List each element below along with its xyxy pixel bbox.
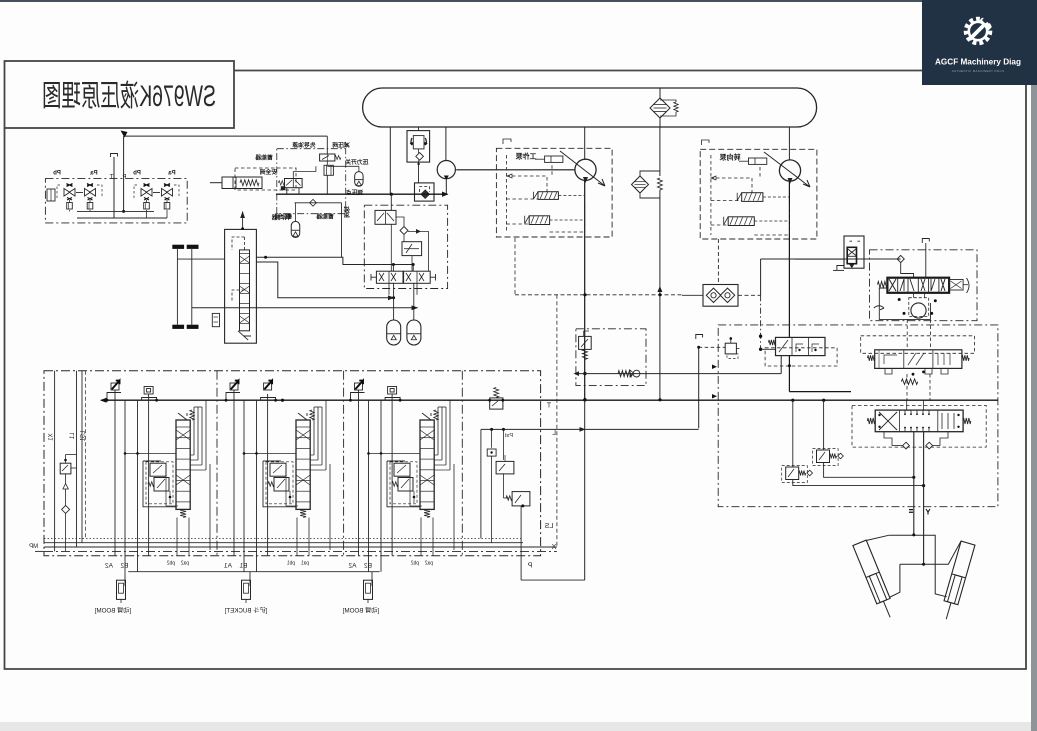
wire LS return line bbox=[481, 427, 699, 538]
section comp dashed box bbox=[146, 462, 173, 504]
wire cooler right leg bbox=[191, 249, 193, 325]
node P dot v2 bbox=[822, 399, 825, 402]
work pump servo cylinder bbox=[535, 156, 563, 162]
steering section dash-dot box bbox=[718, 325, 998, 507]
relief valve V5 bbox=[579, 331, 592, 359]
wire shuttle up dash bbox=[717, 239, 719, 285]
main control valve dash-dot box bbox=[44, 371, 541, 556]
pilot pump P3 bbox=[437, 161, 455, 195]
wire bottom ports connect bbox=[128, 572, 585, 580]
section comp solid box bbox=[263, 461, 296, 507]
pilot valve b1 bbox=[141, 184, 152, 210]
gerotor steering unit bbox=[874, 293, 937, 318]
wire L1 vertical bbox=[76, 371, 78, 547]
charge valve V23 bbox=[375, 210, 396, 224]
wire pilot bottom bus1 bbox=[70, 210, 155, 211]
wire brake box outlets bbox=[389, 283, 417, 295]
svg-text:[铲斗 BUCKET]: [铲斗 BUCKET] bbox=[224, 607, 267, 615]
steering cylinder right C2 bbox=[939, 541, 975, 621]
work pump dashed box bbox=[496, 148, 612, 237]
node P dot pump bbox=[583, 398, 586, 401]
node work P junction bbox=[583, 398, 586, 401]
test port plug 3 bbox=[364, 572, 373, 603]
work pump compensator V1 bbox=[534, 192, 585, 200]
wire section bridge bbox=[367, 400, 454, 550]
steering orbital valve U4 bbox=[887, 278, 949, 293]
node P dot s2 bbox=[281, 399, 284, 402]
wire T bracket steering bbox=[922, 239, 929, 278]
node diamond junction pilot bbox=[295, 199, 342, 221]
wire relief to cyl line2 bbox=[793, 480, 925, 488]
lever bottom bbox=[238, 331, 251, 340]
node charge arrow bbox=[416, 229, 421, 234]
section comp dashed box bbox=[390, 462, 417, 504]
wire section ports bbox=[225, 390, 277, 572]
node filter to P junction bbox=[658, 398, 661, 401]
label Y mark bbox=[926, 509, 930, 515]
svg-text:pb1: pb1 bbox=[287, 561, 296, 567]
svg-text:pa2: pa2 bbox=[425, 561, 434, 567]
svg-text:LS1: LS1 bbox=[81, 431, 87, 442]
svg-text:X: X bbox=[551, 544, 556, 551]
work pump pilot dashes bbox=[506, 155, 584, 232]
wire tank to pilot circuit bbox=[389, 127, 391, 194]
svg-text:pa2: pa2 bbox=[181, 561, 190, 567]
node box-edge arrow2 bbox=[712, 394, 717, 399]
wire X1 vertical bbox=[54, 371, 56, 552]
section pilot cap a A2 bbox=[355, 381, 364, 390]
orbital left spring bbox=[878, 282, 888, 288]
svg-text:A1: A1 bbox=[224, 563, 232, 570]
wire spool up arrow bbox=[240, 211, 245, 230]
svg-text:压力开关: 压力开关 bbox=[345, 158, 368, 166]
svg-text:B1: B1 bbox=[239, 563, 247, 570]
solenoid spring left M bbox=[769, 340, 776, 345]
svg-text:转向泵: 转向泵 bbox=[720, 153, 741, 162]
flow amplifier dash-dot box bbox=[870, 250, 978, 321]
right edge strip bbox=[1031, 0, 1037, 731]
svg-text:蓄能器: 蓄能器 bbox=[316, 212, 334, 220]
section divider 1 bbox=[216, 371, 218, 556]
solenoid small box bbox=[212, 313, 219, 326]
brake master cylinder C3 bbox=[210, 177, 262, 189]
section comp dashed box bbox=[266, 462, 293, 504]
U6 dashed box bbox=[861, 336, 975, 354]
wire pilot P riser bbox=[122, 136, 125, 213]
wire section ports bbox=[349, 390, 401, 572]
wire LS1 dashed vertical bbox=[85, 371, 87, 539]
section spool bbox=[420, 410, 438, 517]
steering pump P2 bbox=[764, 152, 810, 187]
control valve inner divider bbox=[461, 371, 463, 556]
node P dot v1 bbox=[791, 399, 794, 402]
steering compensator V3 bbox=[737, 193, 789, 202]
wire bottom bundle LS bbox=[44, 537, 523, 539]
section pilot cap b B2 bbox=[144, 387, 153, 395]
section compensator top bbox=[270, 463, 286, 476]
wire left aux down bbox=[65, 513, 67, 551]
wire priority to accumulator line1 bbox=[256, 262, 395, 300]
svg-text:T: T bbox=[109, 175, 113, 181]
U6 spring right M bbox=[962, 355, 969, 361]
wire cyl piping port1 bbox=[866, 533, 947, 596]
steering column valve U2 body bbox=[225, 229, 257, 343]
U7 bottom stubs bbox=[884, 432, 948, 449]
wire work pump delivery bbox=[584, 180, 586, 399]
label E mark bbox=[909, 509, 913, 513]
svg-text:A2: A2 bbox=[348, 563, 356, 570]
inlet relief V9 on P line bbox=[488, 388, 504, 410]
section compensator top bbox=[394, 463, 410, 476]
pressure filter F3 bbox=[415, 183, 435, 201]
svg-text:AUTHENTIC MACHINERY DOCS: AUTHENTIC MACHINERY DOCS bbox=[952, 69, 1005, 73]
section pilot cap b B2 bbox=[388, 387, 397, 395]
accumulator A1 bbox=[387, 283, 401, 345]
pressure switch V24 bbox=[402, 235, 422, 256]
cooler R1 plates bbox=[172, 245, 198, 329]
work pump P1 bbox=[560, 151, 605, 186]
wire shuttle to amplifier bbox=[738, 259, 901, 295]
svg-text:L: L bbox=[552, 430, 556, 437]
left aux diamond bbox=[62, 505, 70, 513]
pilot joystick dash-dot box bbox=[45, 179, 187, 223]
wire section pilot unders bbox=[177, 518, 189, 556]
steering pump dashed box bbox=[700, 149, 817, 239]
pressure reducing valve F4 bbox=[320, 154, 341, 161]
section pilot cap b B1 bbox=[264, 381, 273, 390]
steering main valve U7 bbox=[875, 400, 963, 432]
pilot circuit dashed box bbox=[277, 149, 346, 214]
work pump compensator V2 bbox=[525, 216, 585, 225]
wire LS1 vertical bbox=[81, 371, 83, 543]
left aux check bbox=[63, 474, 68, 505]
work pump bracket bbox=[503, 139, 511, 144]
reducing valve V8 bbox=[725, 337, 741, 358]
shuttle valve block V7 bbox=[703, 285, 738, 307]
pilot valve a1 bbox=[64, 184, 75, 210]
wire charge internals bbox=[391, 194, 404, 232]
node P line left arrow bbox=[100, 398, 107, 403]
section cap box bbox=[226, 393, 276, 401]
node relief left arrow bbox=[574, 371, 580, 376]
U6 spring left M bbox=[868, 355, 875, 361]
U7 dashed box bbox=[852, 405, 986, 447]
pilot valve b2 bbox=[162, 184, 173, 210]
hydraulic tank T bbox=[363, 88, 817, 127]
brake charge dash-dot box bbox=[364, 205, 447, 288]
check valve block V20 bbox=[407, 131, 430, 166]
wire cylinder feed right bbox=[923, 432, 925, 564]
svg-text:工作泵: 工作泵 bbox=[516, 152, 537, 161]
wire section pilot unders bbox=[297, 518, 309, 556]
wire cyl piping port2 bbox=[889, 541, 961, 597]
system relief dash-dot box bbox=[576, 329, 646, 386]
svg-text:pb2: pb2 bbox=[411, 561, 420, 567]
svg-text:pb2: pb2 bbox=[167, 561, 176, 567]
svg-text:[动臂 BOOM]: [动臂 BOOM] bbox=[343, 607, 380, 615]
orbital right box bbox=[949, 278, 969, 293]
svg-text:Pb: Pb bbox=[53, 171, 61, 177]
wire charge drops bbox=[391, 231, 428, 271]
section compensator bottom bbox=[392, 478, 413, 492]
svg-text:T: T bbox=[546, 403, 551, 410]
wire relief to cyl line1 bbox=[824, 463, 916, 479]
steering pump servo cylinder bbox=[739, 158, 767, 164]
wire bottom bundle MP bbox=[35, 550, 44, 552]
section pilot cap a A2 bbox=[111, 381, 120, 390]
wire pilot pump to work pump servo bbox=[456, 169, 575, 171]
section cap box bbox=[351, 393, 401, 401]
section compensator bottom bbox=[268, 478, 289, 492]
pedal dashed box bbox=[235, 168, 296, 190]
wire pilot supply header bbox=[121, 131, 328, 155]
svg-text:B2: B2 bbox=[120, 563, 128, 570]
svg-text:L1: L1 bbox=[70, 433, 76, 440]
svg-text:球阀: 球阀 bbox=[343, 206, 351, 218]
section pilot cap a A1 bbox=[230, 381, 239, 390]
svg-text:pa1: pa1 bbox=[301, 561, 310, 567]
U6 below spring bbox=[901, 371, 930, 401]
wire cooler top to valve bbox=[177, 258, 224, 260]
wire cooler to accumulator line2 bbox=[192, 305, 418, 310]
wire section pilot unders bbox=[421, 518, 433, 556]
wire gerotor down legs bbox=[907, 320, 930, 350]
wire cooler bottom to valve bbox=[191, 307, 193, 308]
svg-text:转向器: 转向器 bbox=[271, 214, 290, 222]
brake accumulator A3 bbox=[355, 172, 363, 187]
gerotor feedback frame bbox=[879, 288, 930, 319]
node charge diamond bbox=[400, 227, 408, 235]
steering compensator V4 bbox=[724, 217, 790, 226]
gauge point fitting bbox=[324, 165, 333, 175]
pilot valve link a bbox=[76, 192, 83, 194]
pilot dashed internals bbox=[57, 185, 179, 198]
section comp solid box bbox=[387, 461, 420, 507]
inlet valve V10 bbox=[496, 455, 514, 474]
wire diamond to valve bbox=[901, 263, 914, 279]
svg-text:Pa: Pa bbox=[90, 171, 98, 177]
section compensator top bbox=[150, 463, 166, 476]
node relief junction bbox=[583, 372, 586, 375]
brake accumulator A4 bbox=[291, 221, 300, 237]
wire LS drop line bbox=[341, 203, 343, 258]
wire pump to priority line bbox=[788, 255, 790, 260]
wire pilot supply drops bbox=[287, 161, 359, 194]
wire T return drop bbox=[584, 400, 586, 580]
drawing sheet border bbox=[234, 70, 922, 72]
spool pilot dashes bbox=[232, 237, 245, 302]
top edge strip bbox=[0, 0, 1037, 2]
steering cylinder left C1 bbox=[853, 540, 897, 620]
wire bottom bundle L1 bbox=[44, 546, 557, 548]
svg-text:A2: A2 bbox=[105, 563, 113, 570]
solenoid dashed box bbox=[765, 348, 837, 366]
svg-text:P: P bbox=[122, 175, 126, 181]
svg-text:测压点: 测压点 bbox=[346, 189, 364, 197]
wire main P line bbox=[101, 399, 998, 401]
svg-text:安全阀: 安全阀 bbox=[260, 168, 278, 176]
wire cylinder feed left bbox=[913, 432, 915, 535]
section divider 2 bbox=[343, 371, 345, 556]
steering relief valve V14 bbox=[782, 400, 813, 482]
wire section bridge bbox=[243, 400, 330, 550]
wire bottom bundle X bbox=[44, 550, 557, 552]
bottom edge strip bbox=[0, 722, 1037, 731]
breather filter F1 on tank bbox=[650, 88, 678, 127]
wire tank to steering pump bbox=[788, 127, 790, 160]
wire inlet internals bbox=[492, 429, 521, 580]
steering relief valve V13 bbox=[813, 400, 844, 465]
pilot valve a2 bbox=[85, 184, 96, 210]
wire bottom bundle LS1 bbox=[44, 542, 523, 544]
wire pilot T riser bbox=[111, 154, 118, 219]
wire tank to check block bbox=[418, 127, 420, 130]
wire section bridge bbox=[124, 400, 210, 550]
U7 spring left M bbox=[867, 418, 875, 424]
return filter F2 with bypass bbox=[632, 127, 663, 400]
check valve V6 on relief line bbox=[618, 370, 640, 377]
service brake valve V26 right bbox=[404, 271, 436, 283]
svg-text:LS: LS bbox=[544, 523, 553, 530]
node box-edge arrow1 bbox=[712, 365, 717, 370]
svg-text:[动臂 BOOM]: [动臂 BOOM] bbox=[95, 607, 132, 615]
section comp solid box bbox=[143, 461, 176, 507]
test port plug 2 bbox=[242, 572, 251, 603]
section spool bbox=[296, 410, 314, 517]
wire L line riser bbox=[696, 335, 725, 429]
svg-text:Pst: Pst bbox=[505, 433, 513, 439]
svg-text:Pb: Pb bbox=[133, 171, 141, 177]
test port plug 1 bbox=[117, 572, 126, 603]
wire X dashed riser bbox=[556, 295, 558, 547]
wire solenoid down to cross bbox=[788, 356, 851, 392]
svg-text:Pa: Pa bbox=[168, 171, 176, 177]
inlet small box bbox=[487, 449, 496, 456]
wire pilot supply line bbox=[276, 193, 448, 195]
section cap box bbox=[107, 393, 157, 401]
wire priority to brake valves bbox=[256, 256, 414, 272]
U7 spring right M bbox=[963, 418, 971, 424]
svg-text:MP: MP bbox=[29, 544, 38, 550]
left aux valve V12 bbox=[60, 455, 76, 474]
wire shuttle down to solenoid bbox=[759, 295, 776, 351]
wire relief line to steering bbox=[576, 373, 781, 375]
svg-text:SW976K液压原理图: SW976K液压原理图 bbox=[42, 80, 216, 113]
node amplifier diamond bbox=[897, 255, 904, 262]
wire relief line to solenoid bbox=[780, 356, 782, 374]
wire tank to pilot pump bbox=[445, 127, 447, 160]
inlet valve V11 bbox=[506, 492, 530, 508]
wire steering pump delivery bbox=[788, 181, 790, 337]
wire cooler left leg bbox=[176, 249, 178, 325]
wire pilot bottom bus2 bbox=[77, 210, 167, 218]
steering column spool bbox=[240, 250, 250, 331]
wire section ports bbox=[106, 390, 158, 572]
wire LS dashed trunk bbox=[515, 238, 703, 296]
wire right charge to line bbox=[795, 258, 844, 260]
section spool bbox=[176, 410, 194, 517]
svg-text:X1: X1 bbox=[49, 433, 55, 441]
svg-text:先导油源: 先导油源 bbox=[292, 141, 315, 149]
section compensator bottom bbox=[148, 478, 169, 492]
logo box AGCF bbox=[922, 0, 1037, 85]
svg-text:AGCF Machinery Diag: AGCF Machinery Diag bbox=[935, 58, 1021, 67]
svg-text:B2: B2 bbox=[364, 563, 372, 570]
wire tank to work pump bbox=[584, 127, 586, 159]
U6 port stubs bbox=[885, 368, 948, 374]
svg-text:减压阀: 减压阀 bbox=[332, 141, 350, 149]
amplifier pilot valve U6 bbox=[875, 350, 962, 369]
svg-text:P: P bbox=[527, 563, 532, 570]
steering pump bracket bbox=[702, 140, 710, 145]
pilot valve link b bbox=[153, 192, 160, 194]
accumulator A2 bbox=[407, 283, 421, 345]
svg-text:蓄能器: 蓄能器 bbox=[255, 153, 273, 161]
brake valve V21 3/2 bbox=[279, 179, 303, 191]
wire check block to filter F3 bbox=[418, 162, 420, 183]
node pilot supply end arrow bbox=[442, 192, 449, 197]
brake charge valve right U3 bbox=[833, 236, 864, 270]
steering pump pilot dashes bbox=[711, 155, 790, 235]
pilot box left port bbox=[47, 189, 55, 201]
service brake valve V25 left bbox=[371, 271, 403, 283]
title block box bbox=[5, 61, 235, 128]
pilot solenoid valve U5 bbox=[776, 337, 826, 355]
